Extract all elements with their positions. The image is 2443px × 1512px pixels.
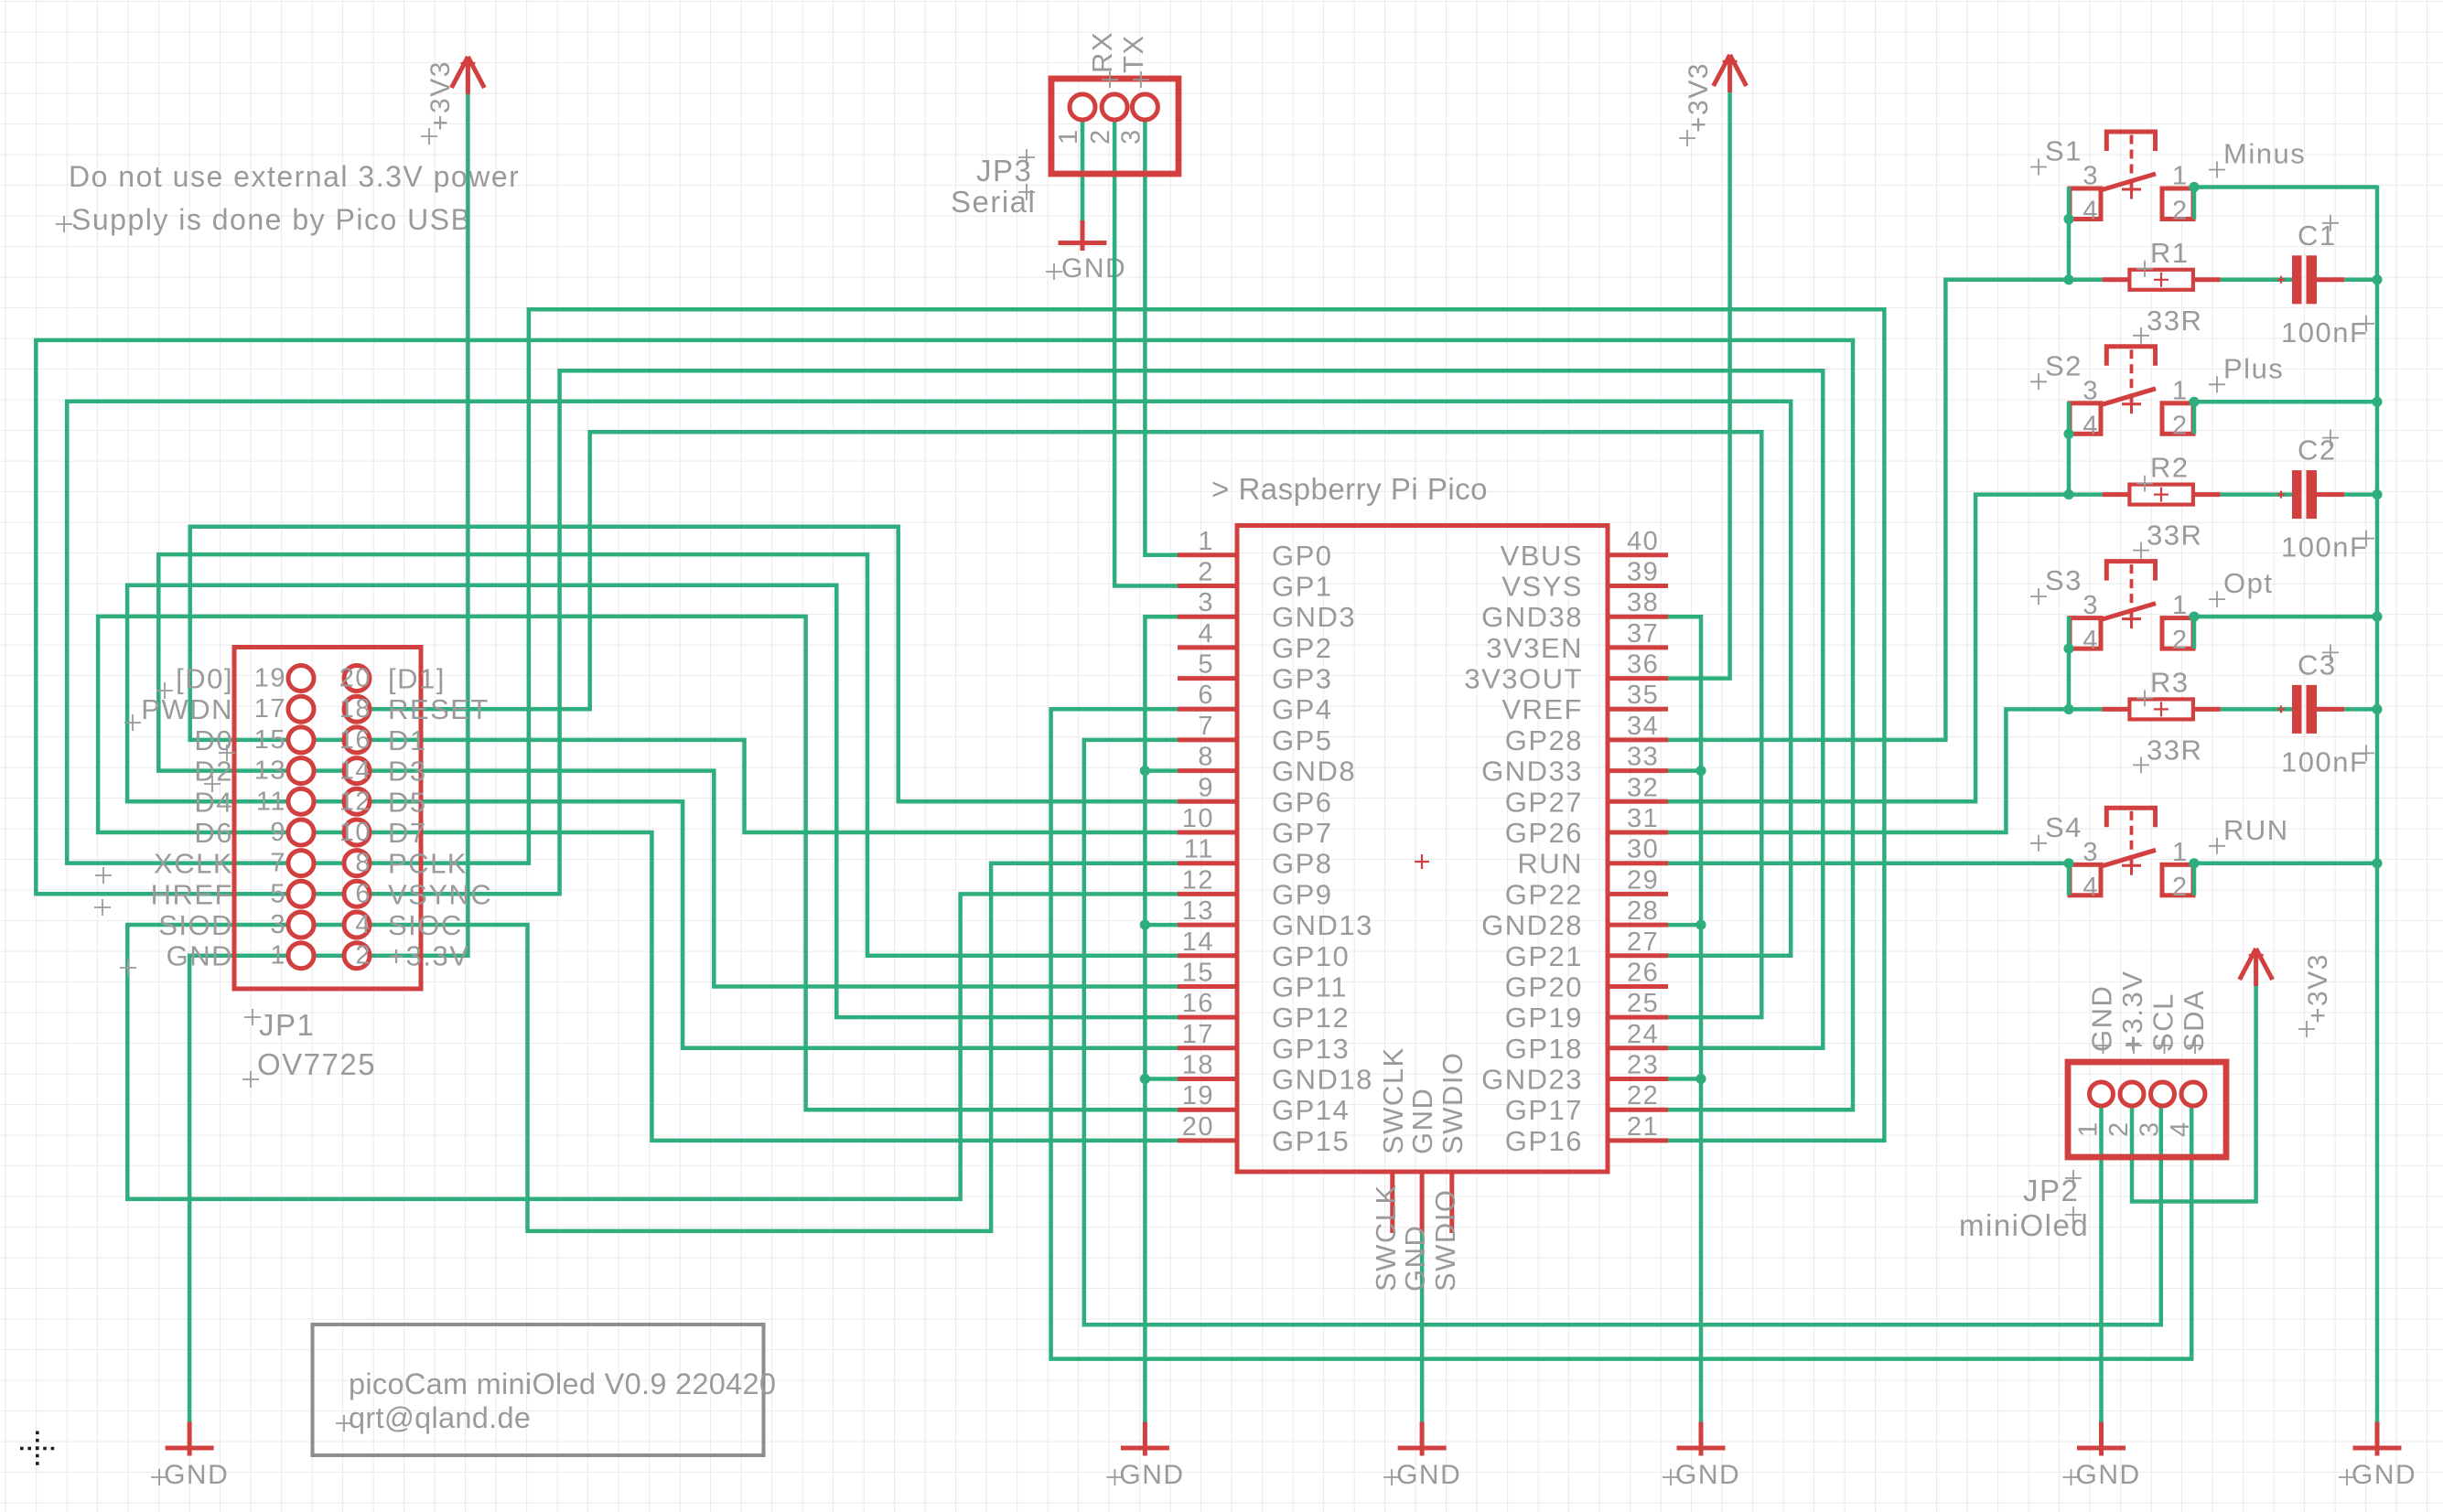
svg-text:19: 19: [254, 664, 286, 693]
wire net GP27 r2: [1668, 495, 2103, 802]
svg-text:2: 2: [2172, 873, 2189, 902]
svg-text:13: 13: [254, 756, 286, 786]
capacitor C1: [2277, 215, 2374, 349]
connector JP1 OV7725: [234, 648, 421, 990]
svg-text:VSYNC: VSYNC: [388, 878, 492, 910]
supply +3V3 P2: [2240, 949, 2333, 1037]
svg-text:S2: S2: [2045, 349, 2082, 381]
svg-text:SCL: SCL: [2147, 992, 2179, 1052]
svg-text:GND33: GND33: [1481, 756, 1583, 788]
svg-text:JP1: JP1: [259, 1008, 315, 1042]
wire net GND8 join: [1145, 768, 1178, 773]
svg-text:GP11: GP11: [1272, 971, 1348, 1003]
junction j S1 right: [2189, 182, 2199, 192]
ground GND1: [151, 1422, 229, 1491]
pin 3 circle: [288, 912, 314, 938]
pin 31 right stub: [1608, 831, 1668, 835]
wire net C2 to bus: [2344, 492, 2377, 497]
svg-text:GND: GND: [1119, 1460, 1184, 1490]
svg-text:Opt: Opt: [2223, 567, 2273, 599]
svg-text:RESET: RESET: [388, 693, 490, 725]
pin bottom SWCLK stub: [1390, 1172, 1394, 1233]
svg-text:14: 14: [339, 756, 371, 786]
svg-text:1: 1: [270, 941, 286, 970]
svg-text:D5: D5: [388, 786, 427, 818]
svg-text:XCLK: XCLK: [154, 848, 233, 880]
wire net RUN s4: [1668, 861, 2069, 865]
wire net D1: [370, 740, 1178, 832]
svg-text:33R: 33R: [2147, 305, 2202, 337]
wire net JP3 gnd: [1081, 120, 1085, 220]
pin 6 left stub: [1178, 707, 1237, 712]
junction j S4 left: [2063, 858, 2073, 868]
pin 12 circle: [344, 788, 370, 814]
svg-text:GND: GND: [1406, 1088, 1438, 1154]
svg-text:GP22: GP22: [1505, 878, 1583, 910]
pin 33 right stub: [1608, 768, 1668, 773]
wire net HREF: [36, 340, 1853, 1110]
pin 38 right stub: [1608, 615, 1668, 619]
svg-text:+3V3: +3V3: [2303, 953, 2333, 1024]
svg-text:R1: R1: [2150, 237, 2190, 269]
svg-text:6: 6: [355, 879, 371, 908]
switch S4: [2030, 808, 2289, 902]
svg-text:2: 2: [1198, 558, 1214, 587]
svg-text:34: 34: [1627, 712, 1659, 741]
svg-text:VREF: VREF: [1501, 693, 1583, 725]
svg-text:GP6: GP6: [1272, 786, 1333, 818]
svg-text:7: 7: [1198, 712, 1214, 741]
pin 24 right stub: [1608, 1046, 1668, 1050]
wire jp1 row pass k6: [288, 861, 370, 865]
pin 20 circle: [344, 666, 370, 692]
svg-text:29: 29: [1627, 865, 1659, 895]
svg-text:GP27: GP27: [1505, 786, 1583, 818]
svg-text:26: 26: [1627, 959, 1659, 988]
svg-text:2: 2: [2172, 411, 2189, 440]
svg-text:100nF: 100nF: [2281, 316, 2368, 349]
svg-text:SIOC: SIOC: [388, 909, 463, 941]
svg-text:S4: S4: [2045, 811, 2082, 843]
junction j S3 pad: [2063, 644, 2073, 654]
svg-text:24: 24: [1627, 1020, 1659, 1049]
wire net GND28 join: [1668, 923, 1701, 928]
wire net GND18 join: [1145, 1077, 1178, 1081]
pin 13 circle: [288, 758, 314, 784]
svg-text:30: 30: [1627, 835, 1659, 864]
wire net PCLK: [370, 309, 1884, 1141]
wire net XCLK: [67, 402, 1791, 956]
wire net GND38 bus: [1668, 617, 1701, 1421]
wire net 3V3OUT: [1668, 92, 1730, 679]
svg-text:3: 3: [2082, 591, 2099, 620]
svg-text:GP16: GP16: [1505, 1125, 1583, 1157]
capacitor C3: [2277, 644, 2374, 777]
wire net GP28 r1: [1668, 280, 2103, 740]
pin 28 right stub: [1608, 923, 1668, 928]
svg-text:GP28: GP28: [1505, 724, 1583, 756]
svg-text:PWDN: PWDN: [141, 693, 233, 725]
svg-text:SDA: SDA: [2178, 990, 2210, 1052]
svg-text:GND23: GND23: [1481, 1064, 1583, 1096]
svg-text:1: 1: [2074, 1121, 2104, 1137]
svg-text:2: 2: [2172, 197, 2189, 226]
svg-text:GP8: GP8: [1272, 848, 1333, 880]
wire net JP2 gnd: [2099, 1106, 2104, 1422]
svg-text:17: 17: [254, 694, 286, 724]
wire net S3 pad to R3: [2067, 649, 2072, 709]
pin 37 right stub: [1608, 645, 1668, 649]
svg-text:HREF: HREF: [151, 878, 233, 910]
svg-text:16: 16: [1182, 989, 1214, 1018]
wire jp1 row pass k5: [288, 831, 370, 835]
svg-text:6: 6: [1198, 681, 1214, 710]
svg-text:32: 32: [1627, 773, 1659, 802]
junction j gnd23: [1695, 1074, 1706, 1084]
pin 23 right stub: [1608, 1077, 1668, 1081]
svg-text:37: 37: [1627, 619, 1659, 649]
wire jp1 row pass k8: [288, 923, 370, 928]
svg-text:3V3EN: 3V3EN: [1486, 632, 1583, 664]
pin 14 circle: [344, 758, 370, 784]
svg-text:miniOled: miniOled: [1959, 1208, 2089, 1242]
wire jp1 row pass k3: [288, 768, 370, 773]
svg-text:33: 33: [1627, 743, 1659, 772]
wire net D6: [98, 617, 1178, 1110]
wire net D5: [370, 801, 1178, 1048]
svg-text:19: 19: [1182, 1081, 1214, 1110]
svg-text:3: 3: [2082, 162, 2099, 191]
junction j gnd13: [1140, 920, 1150, 930]
svg-text:GND38: GND38: [1481, 601, 1583, 633]
resistor R1: [2103, 237, 2221, 344]
pin 7 circle: [288, 851, 314, 876]
svg-text:7: 7: [270, 849, 286, 878]
wire net VSYNC: [370, 370, 1823, 1048]
svg-text:5: 5: [1198, 650, 1214, 680]
svg-text:33R: 33R: [2147, 734, 2202, 766]
svg-text:GP14: GP14: [1272, 1094, 1350, 1126]
pin 29 right stub: [1608, 892, 1668, 896]
junction j gnd28: [1695, 920, 1706, 930]
svg-text:38: 38: [1627, 588, 1659, 617]
wire net R2 to C2: [2221, 492, 2292, 497]
svg-text:GND: GND: [1675, 1460, 1740, 1490]
wire net D3: [370, 771, 1178, 987]
wire net TX gp0: [1145, 120, 1178, 555]
svg-text:2: 2: [355, 941, 371, 970]
wire net GND3 bus: [1145, 617, 1178, 1421]
connector JP2 miniOled: [2068, 970, 2226, 1157]
svg-text:4: 4: [2082, 197, 2099, 226]
pin 39 right stub: [1608, 584, 1668, 588]
svg-text:GND: GND: [2086, 985, 2118, 1052]
svg-text:[D0]: [D0]: [176, 663, 233, 695]
junction j S4 right: [2189, 858, 2199, 868]
pin 10 left stub: [1178, 831, 1237, 835]
svg-text:GP1: GP1: [1272, 571, 1333, 603]
svg-text:GP17: GP17: [1505, 1094, 1583, 1126]
svg-text:18: 18: [1182, 1051, 1214, 1080]
svg-text:100nF: 100nF: [2281, 745, 2368, 777]
svg-text:8: 8: [355, 849, 371, 878]
svg-text:20: 20: [1182, 1112, 1214, 1142]
svg-text:GP21: GP21: [1505, 940, 1583, 972]
svg-text:S1: S1: [2045, 135, 2082, 167]
junction j gnd33: [1695, 766, 1706, 776]
wire net S1 pin1 out: [2194, 185, 2377, 189]
svg-text:+3V3: +3V3: [425, 60, 456, 131]
svg-text:40: 40: [1627, 527, 1659, 556]
svg-text:35: 35: [1627, 681, 1659, 710]
svg-text:GND18: GND18: [1272, 1064, 1373, 1096]
pin 2 left stub: [1178, 584, 1237, 588]
svg-text:3: 3: [2082, 376, 2099, 405]
wire net pico bottom gnd: [1420, 1233, 1425, 1422]
pin 16 left stub: [1178, 1015, 1237, 1020]
svg-text:SWDIO: SWDIO: [1429, 1188, 1461, 1292]
junction j S2 pad: [2063, 429, 2073, 439]
junction j C3 bus: [2372, 704, 2382, 714]
pin 19 left stub: [1178, 1108, 1237, 1112]
wire net R1 to C1: [2221, 278, 2292, 283]
svg-text:4: 4: [2166, 1121, 2195, 1137]
svg-text:17: 17: [1182, 1020, 1214, 1049]
ground GND4sym: [1663, 1422, 1740, 1491]
svg-text:RUN: RUN: [1517, 848, 1583, 880]
wire jp1 row pass k7: [288, 892, 370, 896]
svg-text:2: 2: [1086, 128, 1115, 145]
pin 4 circle: [344, 912, 370, 938]
svg-text:GP5: GP5: [1272, 724, 1333, 756]
svg-text:21: 21: [1627, 1112, 1659, 1142]
svg-text:R2: R2: [2150, 452, 2190, 484]
ground GND6sym: [2063, 1422, 2141, 1491]
svg-text:GND: GND: [1061, 253, 1126, 284]
svg-text:12: 12: [1182, 865, 1214, 895]
pin 12 left stub: [1178, 892, 1237, 896]
svg-text:10: 10: [339, 818, 371, 847]
svg-text:1: 1: [1054, 128, 1083, 145]
svg-text:GP10: GP10: [1272, 940, 1350, 972]
svg-text:9: 9: [270, 818, 286, 847]
svg-text:23: 23: [1627, 1051, 1659, 1080]
svg-text:picoCam miniOled V0.9 220420: picoCam miniOled V0.9 220420: [349, 1367, 776, 1400]
pin 7 left stub: [1178, 737, 1237, 742]
resistor R3: [2103, 666, 2221, 773]
frame title box: [313, 1324, 764, 1455]
svg-text:GP20: GP20: [1505, 971, 1583, 1003]
svg-text:GND3: GND3: [1272, 601, 1356, 633]
pin 6 circle: [344, 881, 370, 906]
svg-text:3V3OUT: 3V3OUT: [1464, 663, 1583, 695]
pin bottom SWDIO stub: [1449, 1172, 1454, 1233]
svg-text:GP15: GP15: [1272, 1125, 1350, 1157]
svg-text:GP26: GP26: [1505, 817, 1583, 849]
junction j S4 bus: [2372, 858, 2382, 868]
pin 27 right stub: [1608, 953, 1668, 958]
supply +3V3 P3: [1679, 55, 1747, 146]
wire net S4 out: [2194, 861, 2377, 865]
pin 16 circle: [344, 727, 370, 753]
pin 9 circle: [288, 820, 314, 845]
svg-text:D6: D6: [194, 817, 233, 849]
svg-text:16: 16: [339, 725, 371, 755]
svg-text:20: 20: [339, 664, 371, 693]
switch S2: [2030, 347, 2284, 441]
svg-text:GND: GND: [164, 1460, 229, 1490]
svg-text:31: 31: [1627, 804, 1659, 833]
junction j S3 right: [2189, 612, 2199, 622]
pin 5 circle: [288, 881, 314, 906]
svg-text:S3: S3: [2045, 564, 2082, 596]
svg-text:Serial: Serial: [951, 185, 1036, 219]
svg-text:GP4: GP4: [1272, 693, 1333, 725]
wire net GND jp1: [189, 956, 288, 1422]
ground GND3sym: [1106, 1422, 1184, 1491]
pin 21 right stub: [1608, 1138, 1668, 1142]
pin 30 right stub: [1608, 861, 1668, 865]
svg-text:VBUS: VBUS: [1501, 540, 1583, 572]
wire net D7: [370, 832, 1178, 1141]
wire net GND13 join: [1145, 923, 1178, 928]
svg-text:28: 28: [1627, 896, 1659, 926]
svg-text:[D1]: [D1]: [388, 663, 446, 695]
svg-text:GP18: GP18: [1505, 1033, 1583, 1065]
wire net SDA gp4: [1051, 709, 2192, 1358]
svg-text:1: 1: [2172, 838, 2189, 867]
svg-text:GND13: GND13: [1272, 909, 1373, 941]
wire net D0: [190, 527, 1178, 802]
svg-text:8: 8: [1198, 743, 1214, 772]
svg-text:R3: R3: [2150, 666, 2190, 698]
svg-text:GP7: GP7: [1272, 817, 1333, 849]
pin 4 left stub: [1178, 645, 1237, 649]
pin 3 left stub: [1178, 615, 1237, 619]
svg-text:15: 15: [1182, 959, 1214, 988]
junction j gnd18: [1140, 1074, 1150, 1084]
pin 15 circle: [288, 727, 314, 753]
svg-text:11: 11: [256, 787, 286, 816]
svg-text:1: 1: [2172, 376, 2189, 405]
pin 20 left stub: [1178, 1138, 1237, 1142]
pin 10 circle: [344, 820, 370, 845]
wire net JP2 3v3: [2132, 986, 2256, 1202]
svg-text:D3: D3: [388, 756, 427, 788]
svg-text:GP19: GP19: [1505, 1002, 1583, 1034]
junction j R1 row: [2063, 274, 2073, 284]
svg-text:GP2: GP2: [1272, 632, 1333, 664]
junction j C2 bus: [2372, 489, 2382, 499]
wire net D2: [158, 554, 1178, 956]
svg-text:D7: D7: [388, 817, 427, 849]
pin 11 left stub: [1178, 861, 1237, 865]
wire net GP26 r3: [1668, 709, 2103, 832]
wire net GND23 join: [1668, 1077, 1701, 1081]
svg-text:D4: D4: [194, 786, 233, 818]
wire net SCL gp5: [1084, 740, 2161, 1324]
svg-text:4: 4: [2082, 873, 2099, 902]
svg-text:GND: GND: [1399, 1225, 1431, 1292]
switch S1: [2030, 132, 2306, 226]
ground GND5sym: [1383, 1422, 1461, 1491]
supply +3V3 P1: [421, 57, 484, 145]
svg-text:GP3: GP3: [1272, 663, 1333, 695]
wire net SIOC: [370, 863, 1178, 1231]
svg-text:Do not use external 3.3V power: Do not use external 3.3V power: [69, 160, 520, 193]
svg-text:GND: GND: [2352, 1460, 2416, 1490]
pin 32 right stub: [1608, 799, 1668, 804]
wire net GND33 join: [1668, 768, 1701, 773]
svg-text:36: 36: [1627, 650, 1659, 680]
svg-text:33R: 33R: [2147, 520, 2202, 552]
pin 9 left stub: [1178, 799, 1237, 804]
wire net R3 to C3: [2221, 707, 2292, 712]
svg-text:4: 4: [2082, 411, 2099, 440]
svg-text:9: 9: [1198, 773, 1214, 802]
wire net RX gp1: [1114, 120, 1178, 586]
svg-text:4: 4: [2082, 626, 2099, 655]
svg-text:3: 3: [1116, 128, 1146, 145]
svg-text:5: 5: [270, 879, 286, 908]
svg-text:3: 3: [270, 910, 286, 939]
svg-text:SWCLK: SWCLK: [1370, 1184, 1402, 1292]
svg-text:+3.3V: +3.3V: [2116, 970, 2148, 1052]
svg-text:SWCLK: SWCLK: [1377, 1046, 1409, 1154]
svg-text:RUN: RUN: [2223, 814, 2289, 846]
svg-text:JP3: JP3: [976, 154, 1032, 188]
wire jp1 row pass k2: [288, 738, 370, 743]
svg-text:1: 1: [2172, 591, 2189, 620]
pin 18 circle: [344, 696, 370, 722]
svg-text:Plus: Plus: [2223, 352, 2284, 384]
pin 22 right stub: [1608, 1108, 1668, 1112]
svg-text:3: 3: [1198, 588, 1214, 617]
svg-text:SWDIO: SWDIO: [1437, 1051, 1469, 1154]
svg-text:GP12: GP12: [1272, 1002, 1350, 1034]
pin 14 left stub: [1178, 953, 1237, 958]
pin 1 circle: [288, 943, 314, 969]
svg-text:D1: D1: [388, 724, 427, 756]
pin bottom GND stub: [1420, 1172, 1425, 1233]
pin 25 right stub: [1608, 1015, 1668, 1020]
IC U1 Raspberry Pi Pico: [1211, 472, 1608, 1172]
svg-text:GND28: GND28: [1481, 909, 1583, 941]
pin 11 circle: [288, 788, 314, 814]
connector JP3 Serial: [1051, 79, 1178, 174]
svg-text:> Raspberry Pi Pico: > Raspberry Pi Pico: [1211, 472, 1488, 506]
svg-text:GP13: GP13: [1272, 1033, 1350, 1065]
svg-text:GND8: GND8: [1272, 756, 1356, 788]
pin 1 left stub: [1178, 552, 1237, 557]
svg-text:100nF: 100nF: [2281, 531, 2368, 563]
svg-text:1: 1: [2172, 162, 2189, 191]
svg-text:12: 12: [339, 787, 371, 816]
switch S3: [2030, 562, 2273, 656]
ground GND7sym: [2339, 1422, 2416, 1491]
pin 19 circle: [288, 666, 314, 692]
svg-text:11: 11: [1184, 835, 1214, 864]
pin 13 left stub: [1178, 923, 1237, 928]
wire net RESET: [370, 432, 1761, 1017]
pin 2 circle: [344, 943, 370, 969]
pin 5 left stub: [1178, 676, 1237, 681]
svg-text:13: 13: [1182, 896, 1214, 926]
svg-text:2: 2: [2104, 1121, 2134, 1137]
wire net D4: [127, 585, 1178, 1017]
pin 8 left stub: [1178, 768, 1237, 773]
junction j S2 right: [2189, 397, 2199, 407]
